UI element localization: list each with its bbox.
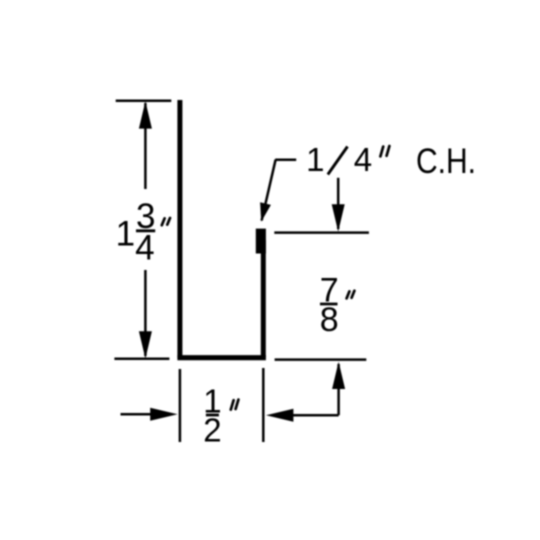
dim 1/2 right dimension line xyxy=(271,414,339,417)
dim 7/8 arrow up onto bottom line xyxy=(332,362,345,389)
svg-text:4: 4 xyxy=(135,229,154,268)
svg-text:2: 2 xyxy=(203,411,221,448)
label 1/2 inch marks xyxy=(231,400,239,410)
profile left vertical leg xyxy=(177,100,182,358)
profile right leg xyxy=(261,240,266,357)
label 1/2 fraction bar xyxy=(206,414,219,417)
label 7/8 fraction bar xyxy=(320,303,338,306)
closed hem mark xyxy=(256,229,266,254)
dim 1-3/4 top extension line xyxy=(116,99,172,102)
dim 7/8 upper arrow line xyxy=(337,178,340,229)
dim 1-3/4 dimension line lower segment xyxy=(144,270,147,356)
svg-text:4: 4 xyxy=(354,141,372,178)
dim 1/2 left dimension line xyxy=(121,413,173,416)
label 1 3/4 fraction bar xyxy=(136,229,155,232)
dim 1/2 arrow right xyxy=(150,408,177,421)
svg-text:8: 8 xyxy=(320,301,339,339)
profile bottom flange xyxy=(177,355,266,360)
svg-text:C.H.: C.H. xyxy=(416,142,476,181)
leader arrow xyxy=(260,202,271,222)
label 7/8 inch marks xyxy=(347,291,355,299)
dim 1/2 right vertical extension line xyxy=(262,368,265,442)
label 1 3/4 inch marks xyxy=(162,218,170,225)
dim 7/8 bottom extension line xyxy=(275,358,367,361)
leader 1/4 C.H. diagonal xyxy=(262,160,276,221)
label 1/4 slash xyxy=(328,147,348,175)
dim 1-3/4 arrow up xyxy=(139,101,152,128)
dim 1/2 arrow left xyxy=(266,409,293,422)
svg-text:1: 1 xyxy=(306,141,324,178)
dim 1-3/4 dimension line upper segment xyxy=(144,103,147,189)
dim 1-3/4 bottom extension line xyxy=(114,358,169,361)
dim 1-3/4 arrow down xyxy=(139,331,152,358)
svg-text:1: 1 xyxy=(116,215,135,254)
dim 7/8 top extension line xyxy=(274,231,369,234)
dim 7/8 lower arrow line xyxy=(337,364,340,415)
label 1/4 inch marks xyxy=(380,146,389,156)
dim 7/8 arrow down onto top line xyxy=(332,204,345,231)
dim 1/2 left vertical extension line xyxy=(179,369,182,442)
leader 1/4 C.H. horizontal xyxy=(275,158,296,161)
